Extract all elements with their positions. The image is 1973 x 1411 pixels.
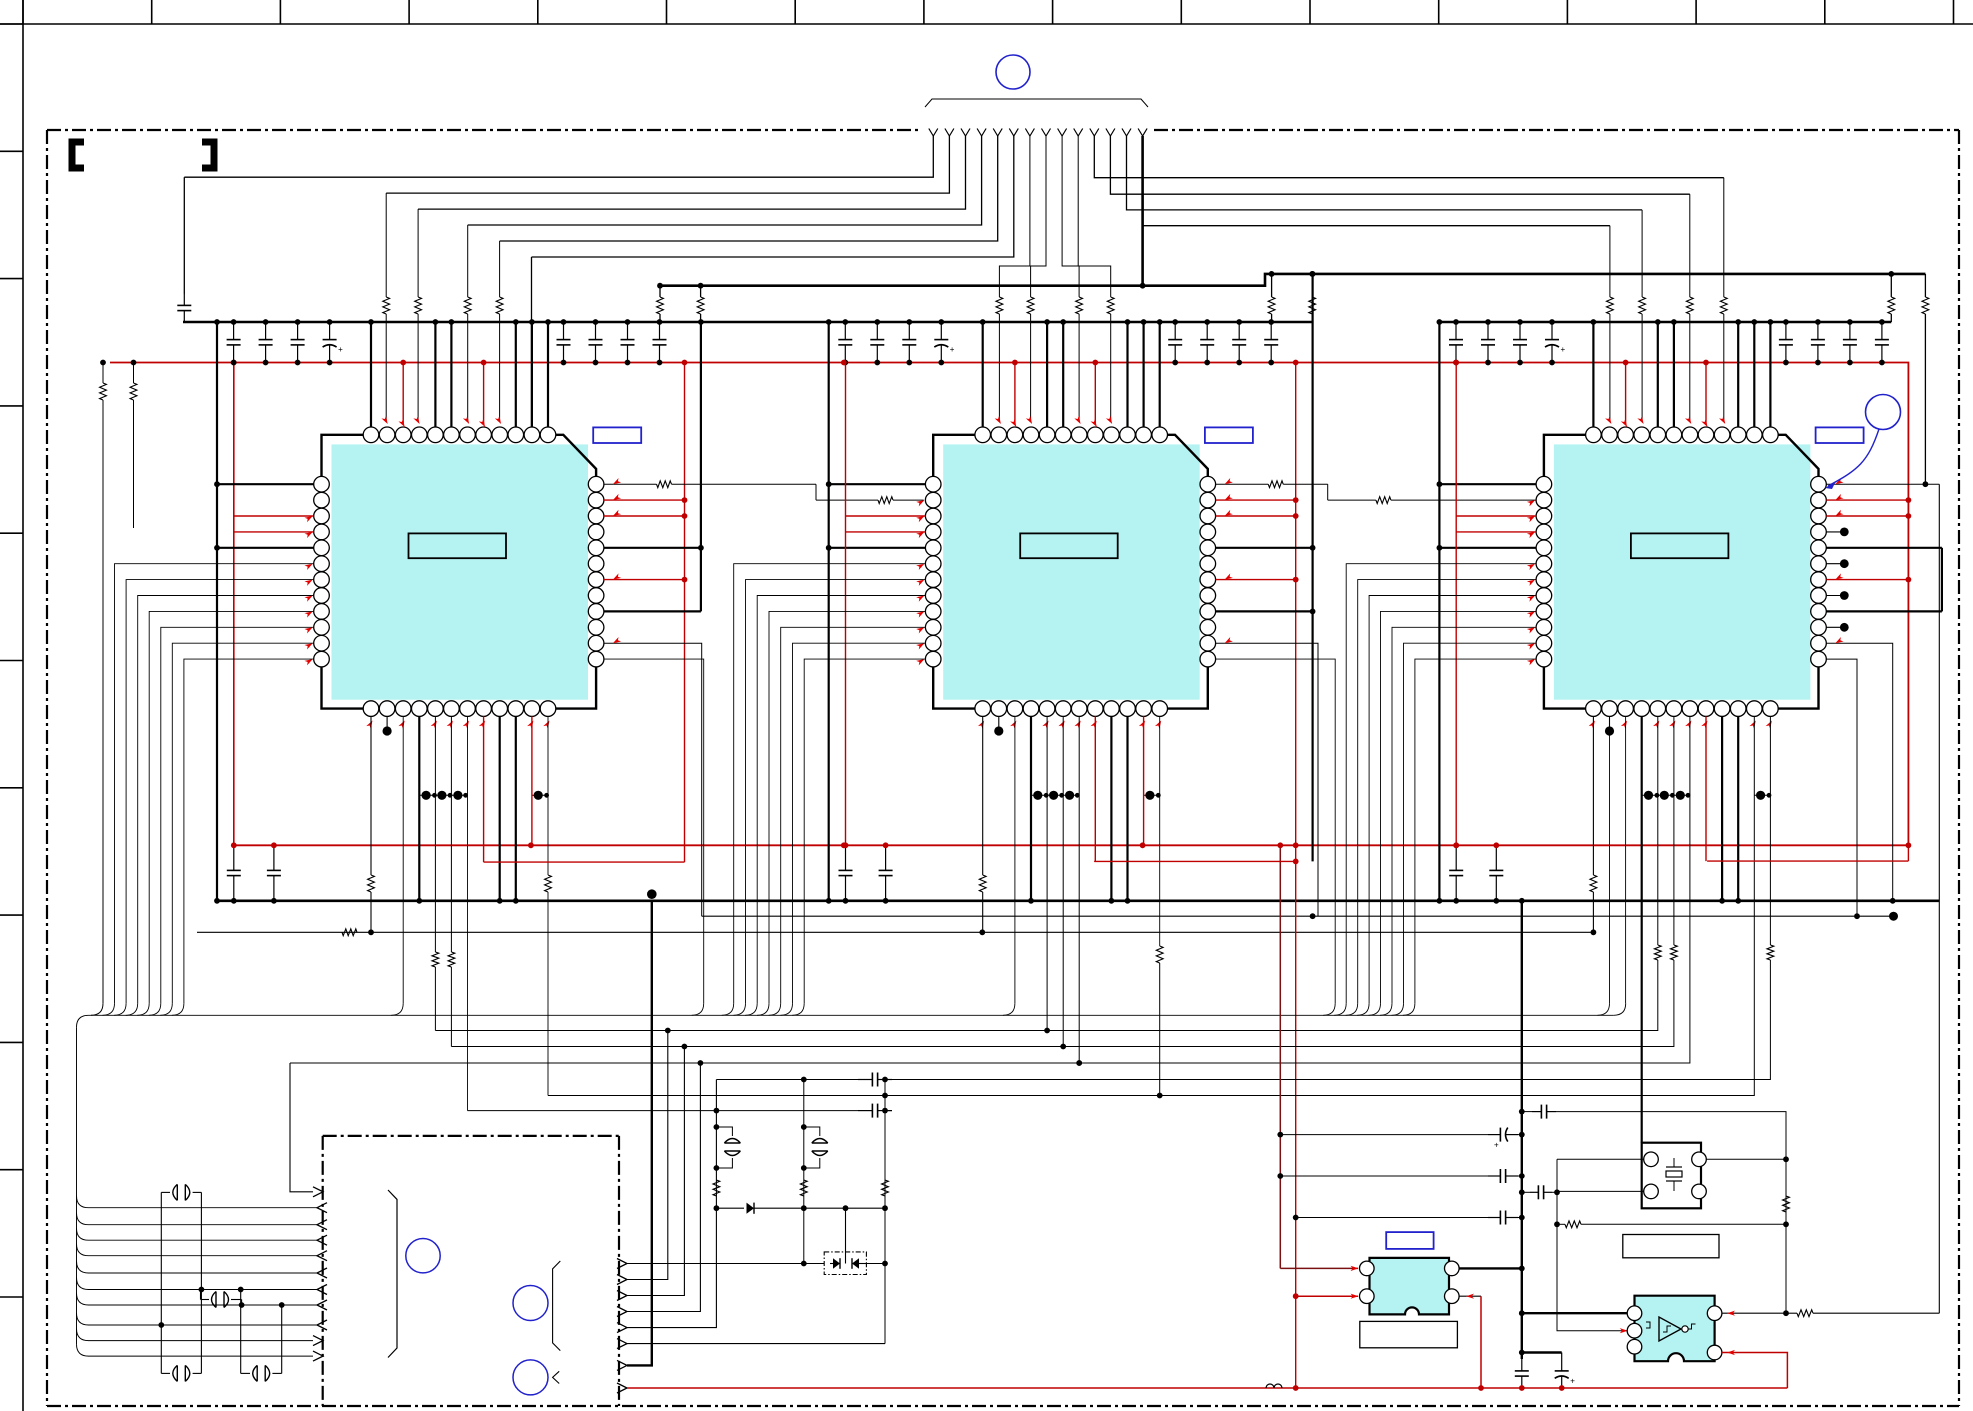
svg-text:+: + xyxy=(1570,1377,1575,1386)
svg-text:+: + xyxy=(338,345,343,354)
svg-text:+: + xyxy=(1494,1141,1499,1150)
svg-text:+: + xyxy=(950,345,955,354)
svg-text:+: + xyxy=(1561,345,1566,354)
